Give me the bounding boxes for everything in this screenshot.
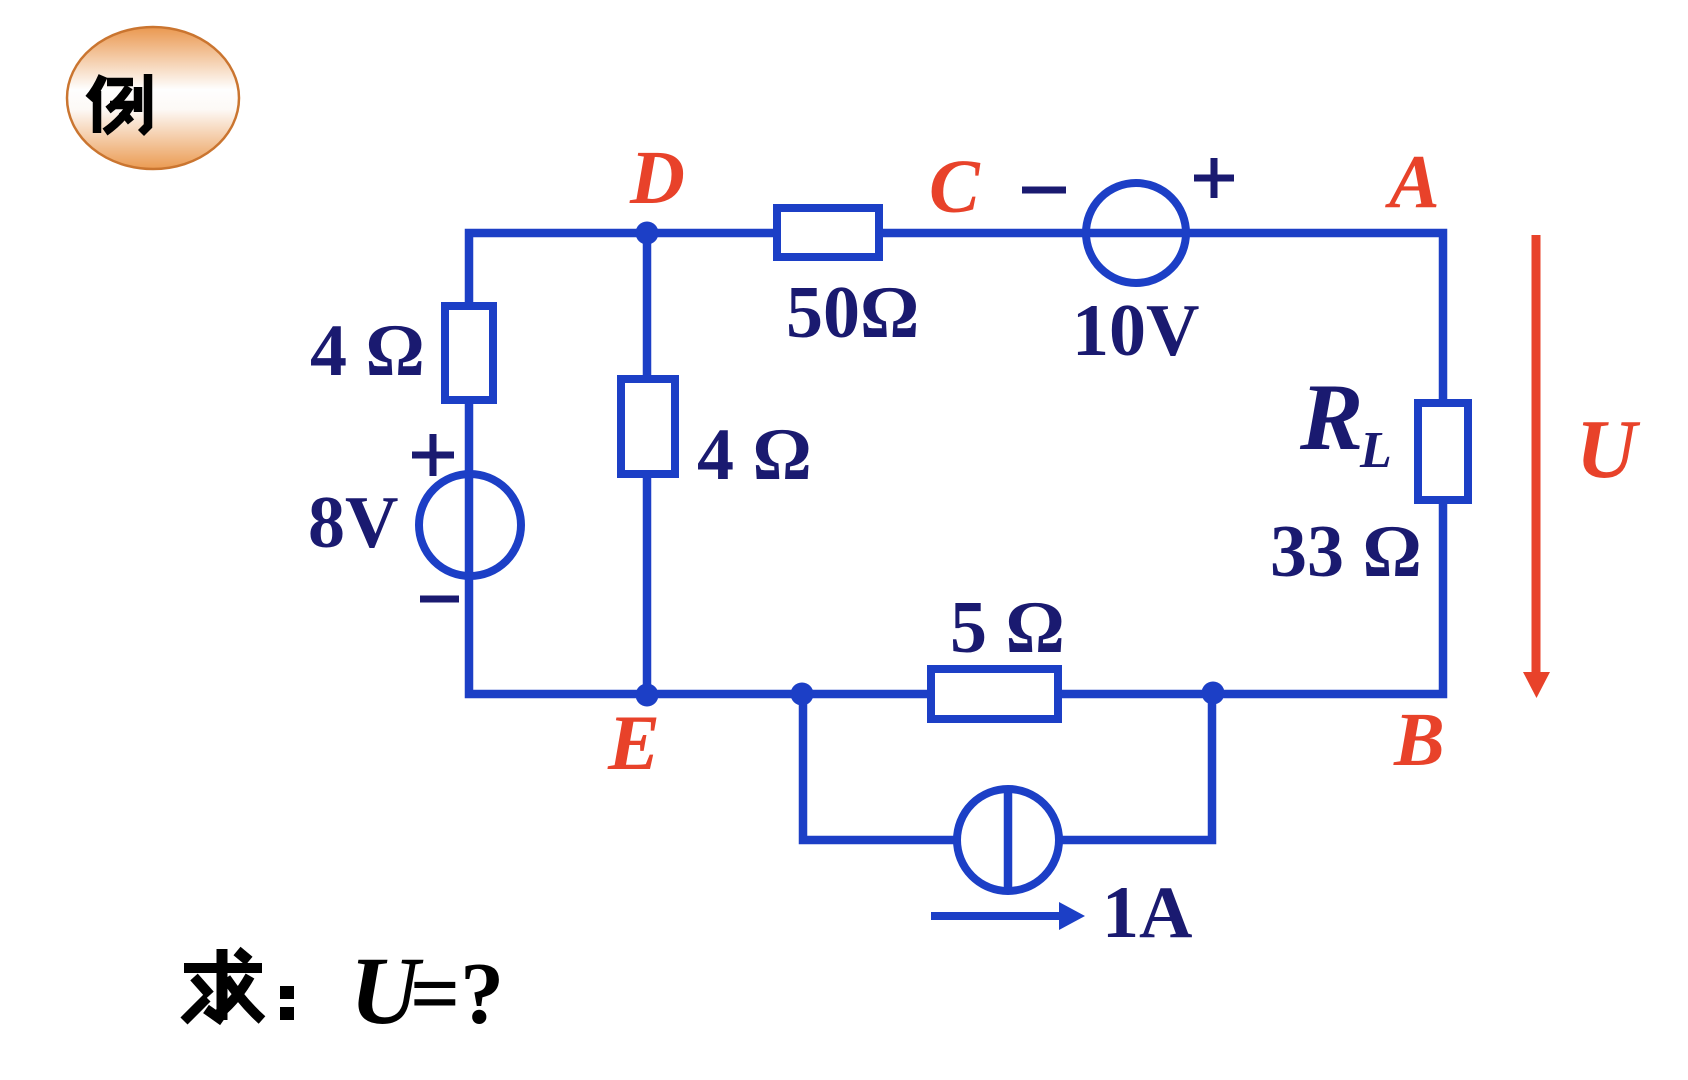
minus sign near C [1022,187,1066,194]
svg-text:U: U [1576,403,1641,496]
svg-text:C: C [929,145,981,229]
wire current-source loop [803,694,1212,840]
arrow 1A blue [931,912,1062,920]
voltage source 8V [419,474,521,576]
junction node left of 5ohm [791,683,814,706]
resistor 50ohm top [777,208,879,257]
svg-text:1A: 1A [1102,872,1192,954]
minus sign below 8V [420,596,459,603]
svg-text:=?: =? [410,946,504,1043]
wire outer loop D-A-B-E [469,233,1443,694]
plus sign near A [1194,158,1234,198]
svg-text:A: A [1385,140,1440,224]
wire middle branch D-E [643,233,652,694]
example badge glyph 例 [89,74,148,133]
plus sign above 8V [412,434,454,476]
example badge ellipse [67,27,239,169]
current source 1A [957,789,1059,891]
svg-text:33 Ω: 33 Ω [1270,511,1422,593]
resistor RL right [1418,403,1468,500]
resistor 4ohm middle [621,379,675,474]
resistor 4ohm left [445,306,493,400]
junction node E [636,684,659,707]
svg-text:10V: 10V [1072,290,1199,372]
svg-text:50Ω: 50Ω [786,272,919,354]
fullwidth colon [280,986,294,999]
svg-text:4 Ω: 4 Ω [310,310,425,392]
arrow U red [1532,235,1541,678]
svg-text:5 Ω: 5 Ω [950,587,1065,669]
svg-text:L: L [1359,422,1392,479]
svg-text:D: D [629,136,685,220]
svg-text:E: E [607,699,660,786]
svg-text:R: R [1299,364,1363,470]
svg-text:B: B [1393,698,1445,782]
junction node right of 5ohm [1202,682,1225,705]
svg-text:4 Ω: 4 Ω [697,414,812,496]
resistor 5ohm bottom [931,669,1058,719]
junction node D [636,222,659,245]
voltage source 10V [1086,183,1186,283]
question glyph 求 [184,949,262,1021]
svg-text:8V: 8V [308,482,398,564]
